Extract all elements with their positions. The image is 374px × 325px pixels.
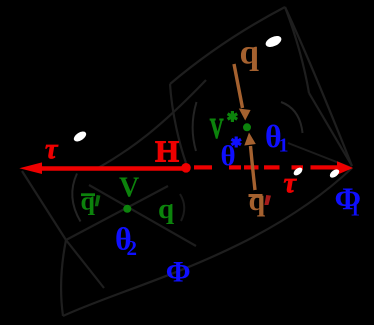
upper cone line rim to tip — [309, 93, 352, 166]
svg-text:1: 1 — [279, 135, 289, 157]
svg-text:1: 1 — [350, 199, 360, 221]
green asterisk of V* — [228, 111, 238, 122]
upper cone edge to apex — [170, 7, 285, 84]
svg-text:q: q — [240, 33, 260, 72]
svg-text:H: H — [155, 134, 179, 169]
svg-text:q: q — [158, 193, 174, 225]
upper disc left cap arc — [193, 102, 197, 151]
tau+ axis dashed red arrow shaft — [194, 165, 338, 169]
line upper vertex to right tip — [288, 143, 352, 168]
brown q arrowhead — [239, 109, 251, 121]
lower cone rim from right tip — [63, 168, 352, 316]
label qbar' (brown): overbar — [249, 194, 263, 197]
upper decay vertex green dot — [243, 123, 251, 131]
lower cone inner line — [66, 240, 104, 288]
svg-text:Φ: Φ — [166, 256, 191, 289]
brown qbar' arrow (up) shaft — [251, 146, 256, 190]
label qbar' (brown): prime (dark red) — [264, 195, 271, 205]
blue asterisk of theta* — [231, 137, 241, 148]
diagonal line axis to apex — [98, 80, 206, 168]
white ellipse highlight near arrowhead — [328, 168, 340, 180]
svg-text:q: q — [81, 187, 96, 216]
white ellipse highlight top — [264, 34, 283, 49]
lower disc diameter A — [66, 186, 168, 240]
upper cone chord apex to tip — [285, 7, 352, 166]
lower cone left edge down — [61, 240, 66, 316]
svg-text:τ: τ — [45, 134, 59, 165]
svg-text:2: 2 — [127, 236, 138, 260]
tau+ arrowhead right — [337, 161, 353, 174]
svg-text:q: q — [249, 184, 266, 217]
lower disc right cap arc — [180, 194, 184, 221]
white ellipse highlight left — [72, 129, 88, 143]
white ellipse highlight near tau+ — [292, 166, 304, 177]
lower decay vertex green dot — [123, 205, 131, 213]
tau- arrowhead left — [19, 162, 42, 174]
brown qbar' arrowhead — [244, 133, 256, 146]
lower disc diameter B — [89, 185, 196, 246]
tau- axis solid red arrow shaft — [38, 166, 186, 171]
H decay vertex red dot — [181, 163, 191, 173]
brown q arrow (down) shaft — [234, 64, 243, 108]
label qbar' (green): prime — [95, 195, 101, 206]
lower disc left cap arc — [72, 174, 80, 222]
upper disc right cap arc — [281, 102, 303, 133]
upper cone rim right arc — [285, 7, 309, 93]
label qbar' (green): overbar — [81, 193, 95, 196]
upper decay-cone left edge — [170, 84, 186, 163]
svg-text:V: V — [119, 173, 139, 204]
lower cone line from left tip — [22, 171, 66, 240]
svg-text:τ: τ — [284, 168, 298, 199]
